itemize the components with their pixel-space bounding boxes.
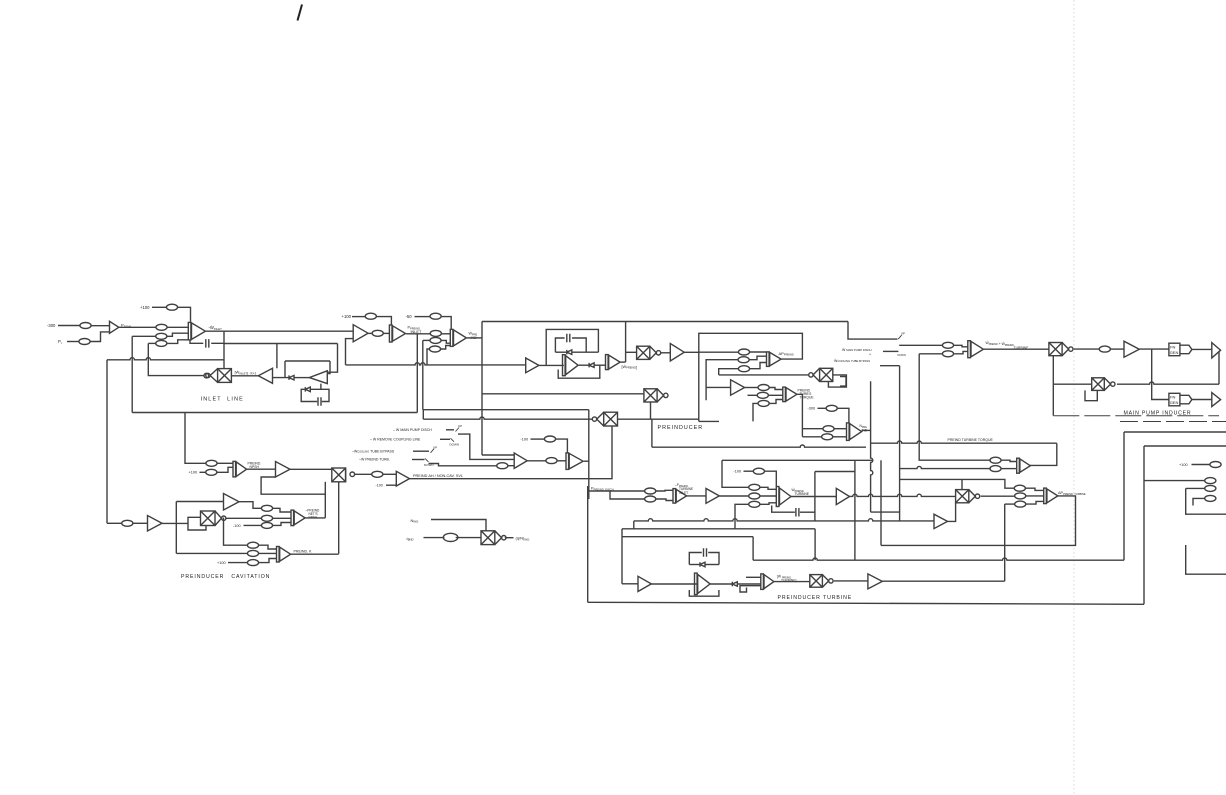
wire node to M2 [626, 351, 637, 353]
capacitor C3 [567, 334, 570, 342]
wire C-box inner left [555, 338, 564, 352]
svg-text:UP: UP [901, 332, 905, 336]
amplifier A10 [731, 380, 745, 395]
potentiometer P8 [372, 330, 383, 336]
svg-text:–ẆCOOLING TUBE BYPASS: –ẆCOOLING TUBE BYPASS [352, 449, 395, 454]
multiplier M8 [810, 575, 833, 588]
wire P21 to N summer top [837, 408, 849, 422]
wire P26 to summer U10 [217, 462, 233, 464]
wire M11 out [505, 537, 514, 539]
amplifier A8 [670, 344, 684, 362]
wire M1 to limiter [231, 375, 258, 377]
wire inlet box bottom [132, 412, 417, 414]
scan fold line [1073, 0, 1075, 795]
wire M7 out [981, 495, 1015, 497]
wire P12 to U3 [441, 346, 451, 350]
potentiometer P14 [738, 357, 749, 363]
multiplier M6 [809, 368, 833, 381]
wire top feed vertical [185, 413, 206, 464]
wire preinducer box bottom [652, 445, 866, 447]
wire +100 to pot P27 [200, 471, 206, 473]
svg-text:– Ẇ REMOVE COUPLING LINE: – Ẇ REMOVE COUPLING LINE [370, 437, 421, 442]
wire A10 input [706, 386, 731, 388]
switch SW4 down [425, 458, 429, 462]
wire P27 to U10 [217, 467, 233, 472]
wire dH to M4 input [589, 426, 612, 479]
wire stub U16 in1 [746, 576, 761, 578]
wire M10 out [1117, 382, 1219, 384]
wire vertical V2 [422, 340, 424, 409]
potentiometer P2 [156, 324, 167, 330]
wire K1 out [1139, 348, 1169, 350]
multiplier M12 [332, 468, 346, 482]
wire P54 feed [1005, 503, 1015, 505]
wire 753 vertical [752, 537, 754, 561]
wire K row3 stub [1193, 498, 1205, 505]
wire A19 below loop [689, 590, 719, 596]
potentiometer P45 [1205, 478, 1216, 484]
wire P16 to summer U7 [769, 388, 783, 390]
svg-text:GEN: GEN [1170, 350, 1179, 355]
wire P51 to U17 [1001, 468, 1017, 470]
wire A5 feedback upper [324, 482, 326, 494]
wire vertical 918 [919, 354, 991, 460]
wire P29 to U11 [259, 552, 277, 554]
potentiometer P43 [1099, 346, 1110, 352]
svg-text:(q̇/N)IND.: (q̇/N)IND. [516, 536, 531, 542]
wire C2 right loop [321, 389, 329, 401]
wire sw3 [413, 450, 429, 452]
potentiometer P46 [1205, 485, 1216, 491]
summer U18 (delta P preind turbine) [1044, 488, 1058, 504]
wire C3 to inner right [572, 338, 586, 352]
amplifier A17 [836, 488, 849, 504]
svg-text:+100: +100 [189, 471, 198, 475]
amplifier A16 [706, 489, 719, 504]
wire V2 line to M4 circle [423, 417, 592, 419]
potentiometer P27 [206, 469, 217, 475]
potentiometer P38 [749, 484, 760, 490]
svg-text:+100: +100 [217, 561, 226, 565]
wire torque line [862, 429, 871, 431]
potentiometer P6 [156, 340, 167, 346]
wire K box2 top [1144, 445, 1226, 447]
wire A17 long line [850, 494, 956, 496]
wire A18 input [622, 583, 638, 585]
wire A12 out to pot row [239, 502, 261, 509]
potentiometer P26 [206, 460, 217, 466]
wire U3 out to big box [467, 337, 482, 339]
wire G row1 [589, 490, 645, 492]
node M1 output circle [204, 373, 209, 378]
potentiometer P11 [430, 337, 441, 343]
wire switch bus to summer U12 [458, 434, 514, 459]
label W preind plus [986, 340, 1030, 350]
wire K inner left [1186, 487, 1205, 489]
wire P36 to U14 [656, 499, 673, 501]
wire vertical 870 [871, 381, 873, 512]
wire P33 to U13 top [556, 439, 568, 453]
wire vertical V1 (P preind inlet down) [416, 334, 418, 413]
wire A18 out [651, 583, 697, 585]
diode D5 [700, 562, 705, 567]
wire sw1 [446, 429, 454, 431]
wire M5 tail box [188, 517, 206, 530]
wire vertical to multiplier M1 output line [148, 343, 204, 375]
wire L1 down G vertical [588, 410, 590, 499]
potentiometer P9 [430, 330, 441, 336]
summer U14 (preind turbine inlet) [673, 489, 687, 504]
potentiometer P53 [1015, 493, 1026, 499]
function generator FN1 [1169, 343, 1192, 356]
wire P54 to U18 [1026, 501, 1044, 504]
potentiometer P13 [738, 349, 749, 355]
wire A2 to pot P8 [368, 332, 372, 334]
wire M9 leg to M10 [1053, 383, 1091, 385]
wire K box2 left [1143, 446, 1145, 604]
svg-text:|ẆINLET|: |ẆINLET| [235, 369, 249, 375]
wire A1 to pot P2 [119, 326, 156, 328]
wire P23 to summer U9 [273, 508, 291, 512]
wire -100 to pot P33 [531, 438, 545, 440]
label switch texts [352, 427, 432, 462]
wire left bus vertical [106, 360, 108, 524]
amplifier A4 (left limiter 2) [309, 371, 327, 384]
wire node down to multiplier M1 [223, 344, 225, 369]
svg-text:UP: UP [458, 424, 462, 428]
wire C-box outer [546, 329, 598, 365]
svg-text:DOWN: DOWN [898, 353, 906, 357]
switch SW2 down [451, 438, 455, 442]
potentiometer P34 [372, 471, 383, 477]
wire bypass arrow line [883, 350, 898, 352]
wire P15 to U6 [750, 363, 767, 369]
wire U13 out [584, 460, 589, 462]
multiplier M3 [644, 389, 668, 402]
wire P32 to integrator U13 [557, 460, 566, 462]
summer A20 [968, 341, 984, 358]
svg-text:TURBINE: TURBINE [795, 492, 810, 496]
wire E row1 in [224, 518, 248, 546]
potentiometer P28 [247, 542, 258, 548]
wire C5 right lead [800, 511, 815, 513]
wire M8 to A14 [834, 580, 868, 582]
wire A16 to pots [719, 495, 748, 497]
multiplier M2 [637, 346, 661, 359]
wire horizontal bus y365 [346, 363, 526, 365]
svg-text:-50: -50 [406, 314, 413, 319]
amplifier A5 [276, 462, 291, 478]
potentiometer P18 [758, 400, 769, 406]
wire vertical 815 [814, 472, 816, 521]
wire P37 to U15 top [765, 471, 777, 486]
wire row2 to S T2 [900, 466, 991, 468]
svg-text:PREIND. K: PREIND. K [294, 550, 313, 554]
wire P50 to summer U17 [1001, 460, 1017, 461]
wire 815 vertical [814, 529, 816, 560]
wire 479 line [900, 479, 1015, 488]
wire +100 to pot P4 [152, 306, 166, 308]
wire lattice 512 tie [871, 511, 900, 513]
wire P19 to N summer [834, 428, 846, 430]
wire -300 to pot P1 [58, 325, 80, 327]
wire A5 feedback [261, 477, 325, 518]
svg-text:PREIND TURBINE TORQUE: PREIND TURBINE TORQUE [948, 438, 994, 442]
wire vertical M2 feed [625, 322, 627, 363]
wire 815 to 854 tie [815, 471, 855, 473]
wire fb box left up [880, 460, 882, 545]
potentiometer P10 [430, 313, 441, 319]
potentiometer P25 [261, 522, 272, 528]
wire to N pot row1 [802, 428, 823, 430]
summer U9 (preind nets npsh) [291, 510, 305, 525]
potentiometer P41 [942, 342, 953, 348]
capacitor C4 [704, 548, 707, 557]
label preind nets npsh [306, 508, 321, 519]
wire to pot row1 J [899, 344, 942, 346]
multiplier M4 [592, 412, 617, 426]
wire U15 out [791, 496, 837, 498]
potentiometer P30 [247, 560, 258, 566]
wire y521 left end [633, 521, 635, 529]
wire lower feedback bus [107, 358, 224, 360]
wire P25 to U9 [273, 523, 291, 526]
wire P17 to U7 [768, 394, 782, 396]
wire in to P18 [753, 403, 758, 421]
integrator A19 [695, 573, 711, 595]
svg-text:PREINDUCER TURBINE: PREINDUCER TURBINE [778, 595, 853, 601]
switch SW5 up [898, 335, 902, 339]
wire delta H line [410, 478, 589, 480]
potentiometer P5 [156, 333, 167, 339]
potentiometer P40 [749, 501, 760, 507]
wire K row1 [1144, 480, 1205, 482]
diode D6 [732, 582, 737, 586]
summer U12 [514, 453, 527, 468]
wire K box1 left [1123, 432, 1125, 560]
amplifier A2 [353, 325, 368, 342]
wire +100 to pot P44 [1192, 464, 1210, 466]
svg-text:[ẆPREIND]: [ẆPREIND] [622, 364, 638, 370]
wire V2 stub down [422, 410, 424, 420]
wire A20 to M9 [984, 348, 1049, 350]
wire big box low line [482, 393, 644, 395]
wire box feed to U12 [482, 454, 514, 456]
wire to amp A12 [176, 501, 223, 503]
wire P22 to amp A11 [133, 522, 148, 524]
wire P4 to integrator U1 top [178, 307, 191, 322]
wire A7 bottom loop [558, 365, 600, 378]
wire A8 to pot row1 [699, 351, 739, 353]
wire long line y521 [634, 519, 934, 521]
svg-text:INLET LINE: INLET LINE [201, 396, 244, 402]
wire N ind to M11 [431, 520, 486, 531]
integrator U3 (W pre) [450, 329, 466, 346]
potentiometer P21 [826, 405, 837, 411]
svg-text:– Ẇ MAIN PUMP DISCH: – Ẇ MAIN PUMP DISCH [393, 427, 432, 432]
wire A5 to multiplier ME [290, 468, 332, 470]
potentiometer P37 [753, 468, 764, 474]
wire M6 stub box [840, 377, 846, 387]
wire E junction vertical [175, 502, 177, 554]
amplifier A1 [110, 321, 119, 333]
potentiometer P33 [544, 436, 555, 442]
wire long 560 line [753, 558, 1124, 560]
svg-text:q̇IND: q̇IND [406, 536, 413, 542]
wire A13 out up [948, 503, 956, 522]
wire P9 to integrator U3 [441, 333, 450, 335]
wire diode row right [572, 351, 598, 353]
integrator U2 (P preind inlet) [389, 325, 405, 342]
wire A11 out [162, 522, 188, 524]
summer U17 [1017, 458, 1031, 473]
svg-text:ΔPPREIND. TURBINE: ΔPPREIND. TURBINE [1058, 491, 1086, 496]
svg-text:DOWN: DOWN [450, 443, 460, 447]
potentiometer P4 [166, 304, 177, 310]
summer U7 (preind turb torque) [783, 387, 797, 402]
wire P7 to integrator U2 [376, 317, 391, 325]
svg-text:INLET: INLET [679, 491, 688, 495]
potentiometer P24 [261, 515, 272, 521]
wire bottom mid line [854, 460, 856, 560]
wire stub U16 box [740, 586, 747, 592]
amplifier A14 [868, 574, 882, 589]
wire P3 to A1 lower input [90, 332, 109, 342]
wire P39 to U15 [760, 495, 776, 497]
potentiometer P3 [79, 339, 90, 345]
svg-text:+100: +100 [342, 314, 352, 319]
wire D4 to U5 [594, 364, 605, 366]
potentiometer P15 [738, 366, 749, 372]
wire inner box left [284, 361, 286, 378]
wire P41 to amp A20 [954, 345, 968, 347]
wire P8 to U2 [383, 332, 389, 334]
wire 536 line [622, 536, 753, 538]
wire M7 top feed [961, 479, 963, 489]
wire vertical feedback left [131, 336, 133, 412]
wire P38 to U15 [760, 487, 776, 489]
wire M6 input right [828, 375, 846, 387]
wire top line down [848, 322, 898, 340]
wire P55 to M11 [456, 537, 481, 539]
potentiometer P22 [122, 520, 133, 526]
potentiometer P36 [645, 496, 656, 502]
wire feed P42 [919, 353, 942, 355]
wire P35 to summer U14 [656, 489, 673, 492]
wire J box tie [880, 365, 900, 367]
wire main pump underline 2 [1120, 421, 1226, 423]
wire turbine box top [722, 459, 873, 461]
potentiometer P42 [942, 351, 953, 357]
wire turbine outer box bottom [588, 602, 1144, 604]
svg-text:-100: -100 [233, 524, 241, 528]
wire A2 lower input [346, 339, 354, 365]
wire U7 down [796, 394, 802, 437]
integrator A7 [563, 355, 579, 376]
wire C4 right [708, 553, 719, 565]
label preind turbs torque [798, 388, 815, 399]
integrator U13 [566, 453, 583, 470]
switch SW1 up [456, 428, 460, 432]
svg-text:Ẇ MAIN PUMP DISCH: Ẇ MAIN PUMP DISCH [842, 347, 872, 352]
wire H2 left vertical [621, 529, 623, 584]
wire main pump underline [1053, 415, 1219, 417]
wire P43 to amp K1 [1110, 348, 1124, 350]
wire C1 row to inlet box [224, 343, 338, 345]
potentiometer P29 [247, 550, 258, 556]
capacitor C1 [206, 339, 209, 348]
wire U18 feedback box [881, 496, 1076, 546]
potentiometer P39 [749, 493, 760, 499]
wire P53 to U18 [1026, 495, 1044, 497]
svg-text:PREIND ΔH / NON-CAV. SVL: PREIND ΔH / NON-CAV. SVL [413, 474, 463, 478]
svg-text:+100: +100 [140, 305, 150, 310]
svg-text:PREINDUCER CAVITATION: PREINDUCER CAVITATION [181, 574, 270, 580]
wire vertical 899 [899, 366, 901, 521]
wire H2 box top [622, 528, 815, 530]
potentiometer P1 [80, 323, 91, 329]
amplifier A13 [934, 514, 948, 528]
potentiometer P23 [261, 505, 272, 511]
multiplier M7 [956, 490, 980, 503]
multiplier M10 [1092, 378, 1115, 391]
integrator U8 (N preind) [847, 423, 862, 441]
integrator U1 (-Winlet) [188, 322, 205, 340]
diode D1 [289, 375, 294, 380]
svg-text:+: + [869, 353, 871, 357]
wire stub U16 in3 [744, 585, 761, 587]
wire U1 output bus [206, 330, 353, 332]
potentiometer P55 [443, 533, 458, 541]
wire D1 to A4 [294, 377, 309, 379]
wire M2 to A8 [661, 352, 670, 354]
svg-text:-100: -100 [734, 470, 742, 474]
svg-text:-ẆINLET: -ẆINLET [209, 325, 223, 331]
wire P10 to U3 top [441, 317, 451, 330]
wire diode row left [555, 351, 566, 353]
wire sw4 [412, 459, 425, 461]
wire P40 to U15 [760, 503, 776, 505]
wire M9 down leg [1052, 356, 1054, 416]
wire D5 right [706, 564, 720, 566]
potentiometer P44 [1210, 462, 1221, 468]
wire G row2 [610, 491, 645, 499]
wire P20 to N summer [833, 436, 847, 438]
svg-text:-300: -300 [808, 407, 816, 411]
wire -50 to pot P10 [415, 316, 430, 318]
wire K1 junction down [1152, 349, 1169, 399]
svg-text:GEN: GEN [1170, 400, 1179, 405]
wire P14 to U6 [749, 356, 766, 360]
wire M4 out line right [618, 418, 699, 420]
integrator U5 (W preind) [606, 355, 621, 370]
potentiometer P16 [758, 385, 769, 391]
svg-text:ΔPPREIND: ΔPPREIND [779, 351, 794, 357]
node input circle F [350, 472, 355, 477]
svg-text:NIND.: NIND. [411, 518, 420, 524]
wire D6 to summer U16 [738, 583, 761, 585]
svg-text:-100: -100 [376, 484, 383, 488]
wire A6 to A7 [539, 364, 564, 366]
capacitor C5 [796, 508, 799, 517]
label P preind inlet [408, 326, 422, 335]
label W pre ind [469, 331, 478, 341]
wire U5 out to node [620, 361, 625, 363]
wire M10 loop [1085, 390, 1097, 400]
wire -100 stub [386, 483, 396, 485]
label W main pump disch [834, 347, 872, 363]
wire M6 output line [719, 374, 810, 376]
